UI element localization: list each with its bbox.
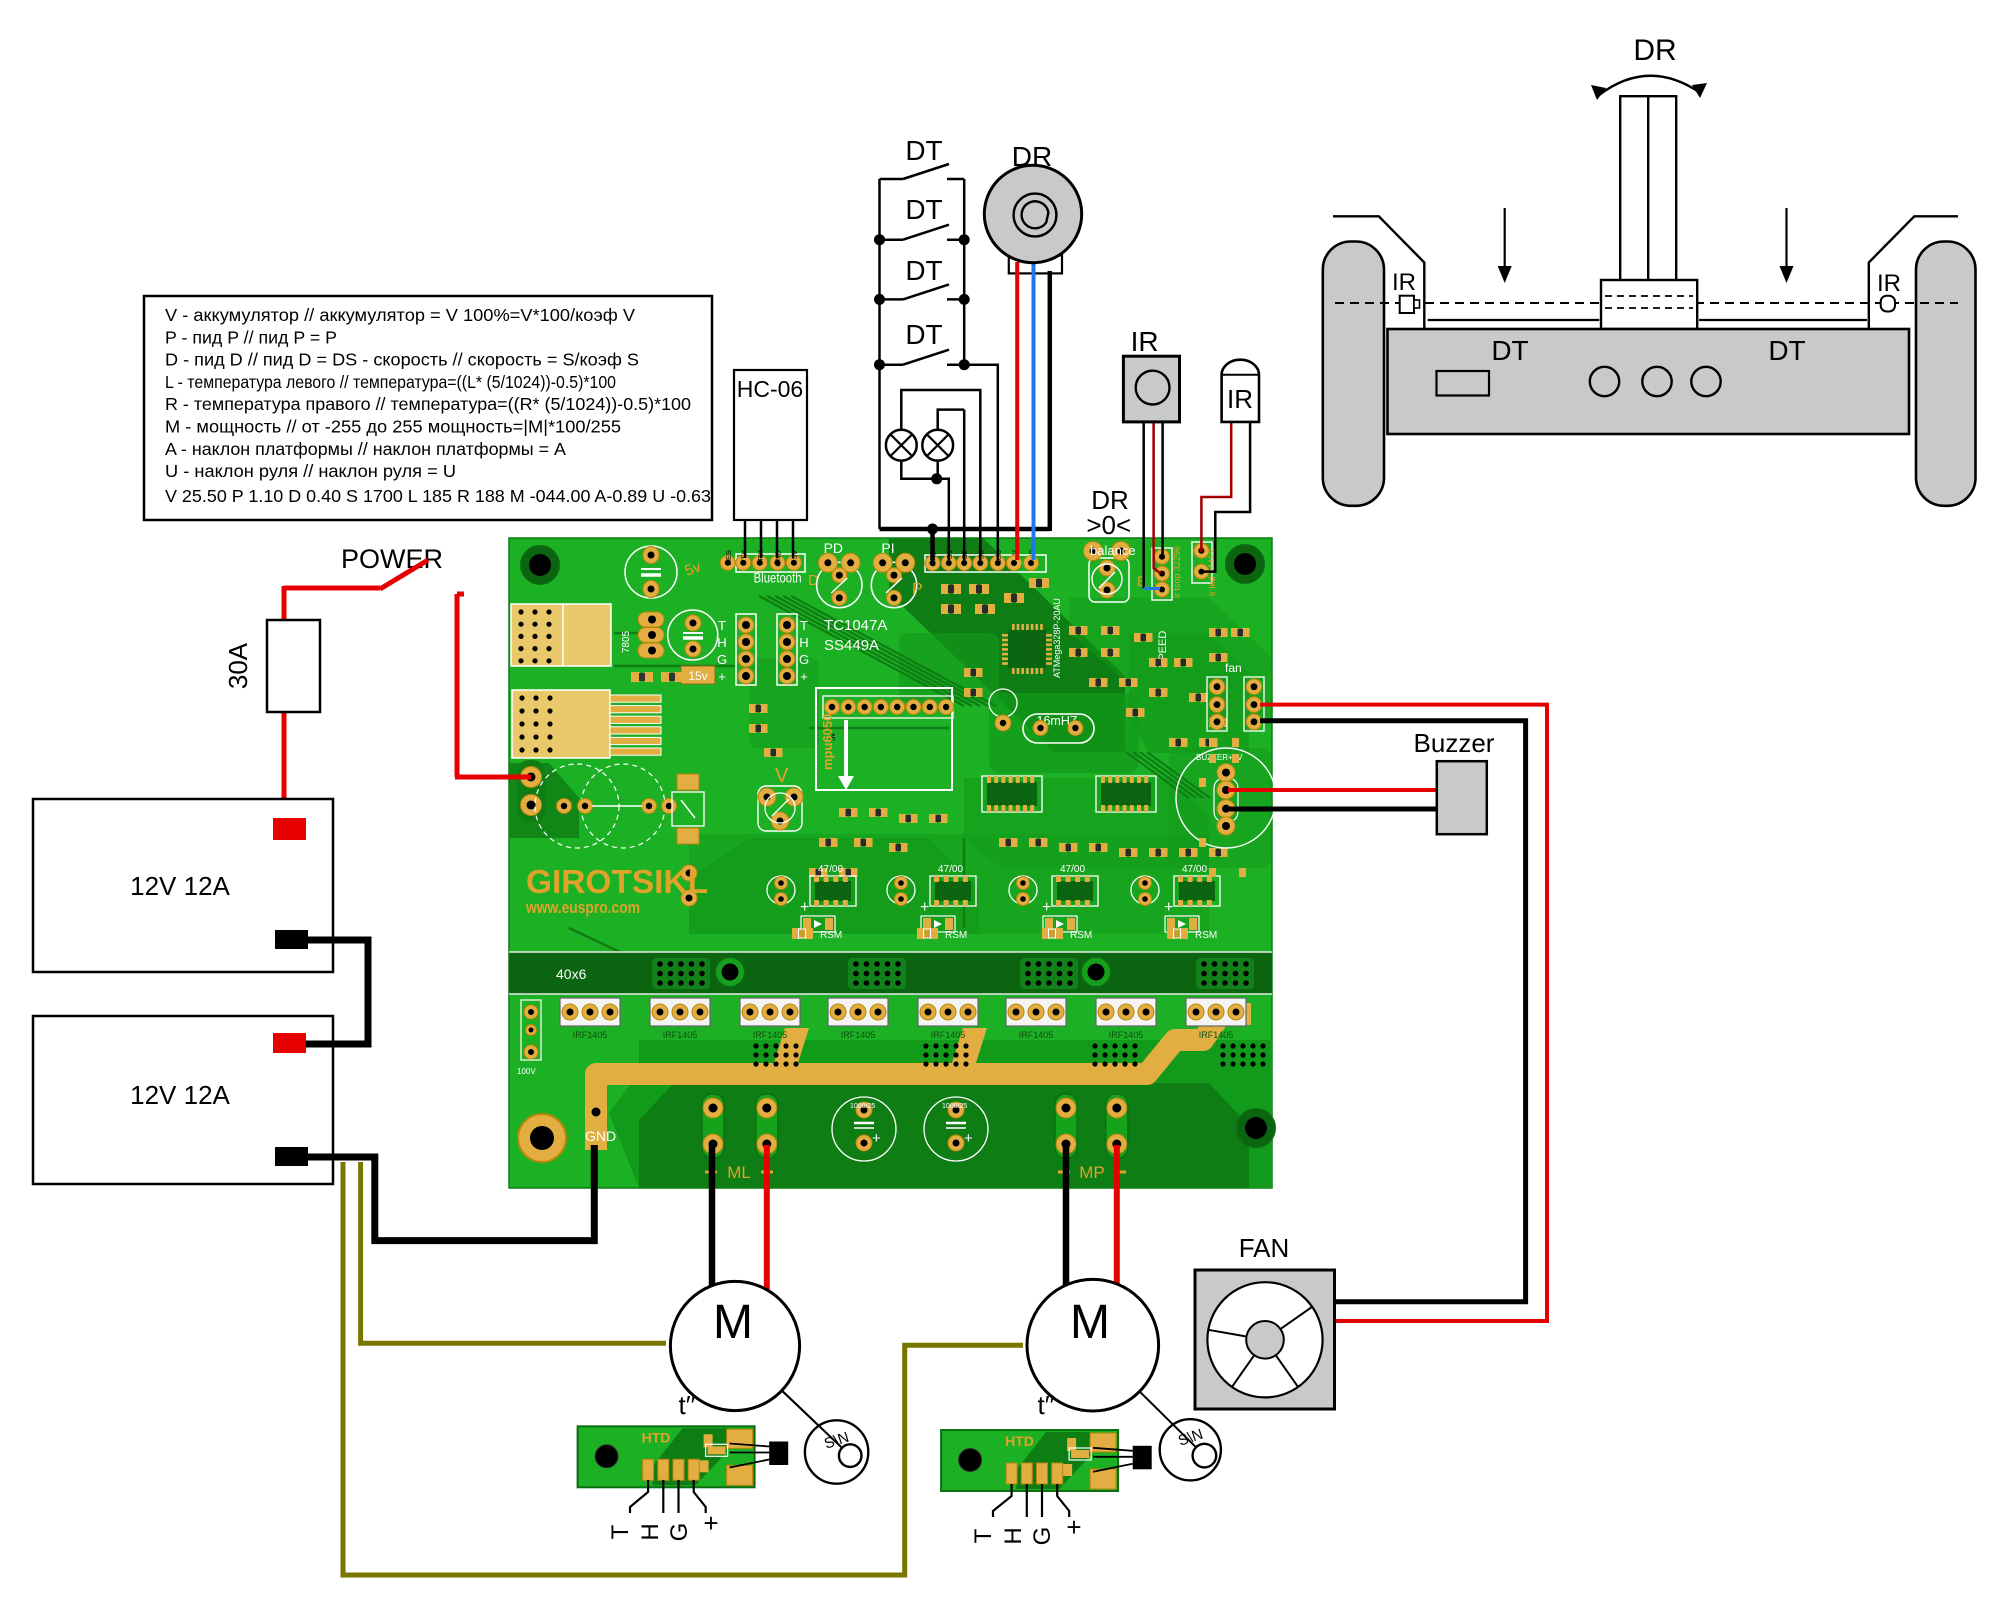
svg-text:HTD: HTD [642,1429,671,1445]
svg-text:M: M [713,1296,753,1349]
svg-text:IRF1405: IRF1405 [1019,1030,1054,1040]
svg-text:H: H [637,1523,664,1540]
svg-text:IR: IR [1392,269,1416,296]
svg-text:U - наклон руля // наклон рул: U - наклон руля // наклон руля = U [165,461,456,481]
svg-text:ATMega328P-20AU: ATMega328P-20AU [1052,598,1062,678]
svg-text:7805: 7805 [621,630,632,653]
svg-text:+: + [964,1130,973,1147]
svg-text:+: + [872,1130,881,1147]
svg-text:+: + [703,1508,718,1538]
svg-text:HC-06: HC-06 [737,376,803,402]
svg-text:t′′: t′′ [1038,1390,1055,1420]
svg-text:+: + [800,899,809,916]
svg-text:M - мощность // от -255 до 25: M - мощность // от -255 до 255 мощность=… [165,417,621,437]
svg-text:IR: IR [1227,384,1253,414]
svg-text:G: G [1029,1527,1056,1546]
svg-text:GIROTSIKL: GIROTSIKL [526,863,708,900]
svg-text:12V 12A: 12V 12A [130,871,230,901]
svg-text:47/00: 47/00 [1060,864,1085,875]
svg-text:t′′: t′′ [679,1390,696,1420]
svg-text:47/00: 47/00 [818,864,843,875]
svg-text:DT: DT [1768,335,1805,366]
svg-text:IRF1405: IRF1405 [573,1030,608,1040]
svg-text:47/00: 47/00 [938,864,963,875]
svg-text:IRF1405: IRF1405 [663,1030,698,1040]
svg-text:MP: MP [1079,1163,1105,1182]
svg-text:Buzzer: Buzzer [1414,728,1495,758]
svg-text:mpu6050: mpu6050 [820,714,835,770]
svg-text:IRF1405: IRF1405 [753,1030,788,1040]
svg-text:1000/25: 1000/25 [942,1103,967,1110]
svg-text:V 25.50 P 1.10 D 0.40 S 1700 L: V 25.50 P 1.10 D 0.40 S 1700 L 185 R 188… [165,486,711,506]
svg-text:HTD: HTD [1005,1433,1034,1449]
svg-text:P - пид P // пид P = P: P - пид P // пид P = P [165,327,337,347]
svg-text:DT: DT [905,319,942,350]
svg-text:ir tsop 32296: ir tsop 32296 [1172,546,1182,598]
svg-text:+: + [920,899,929,916]
svg-text:V - аккумулятор // аккумулятор: V - аккумулятор // аккумулятор = V 100%=… [165,305,635,325]
svg-text:RSM: RSM [1195,930,1217,941]
svg-text:DT: DT [905,135,942,166]
svg-text:A - наклон платформы // наклон: A - наклон платформы // наклон платформы… [165,439,566,459]
svg-text:G: G [717,652,727,667]
svg-text:PD: PD [824,540,843,556]
svg-text:IR: IR [1131,326,1159,357]
svg-text:V: V [775,765,789,787]
svg-text:L - температура левого // темп: L - температура левого // температура=((… [165,372,616,392]
svg-text:+: + [1042,899,1051,916]
svg-text:R - температура правого // тем: R - температура правого // температура=(… [165,394,691,414]
svg-text:RSM: RSM [820,930,842,941]
svg-text:DT: DT [905,194,942,225]
svg-text:T: T [718,618,726,633]
svg-text:DT: DT [1491,335,1528,366]
svg-text:T: T [970,1528,997,1543]
svg-text:FAN: FAN [1239,1233,1290,1263]
svg-text:TC1047A: TC1047A [824,617,887,634]
svg-text:G: G [799,652,809,667]
svg-text:47/00: 47/00 [1182,864,1207,875]
svg-text:5V: 5V [790,550,799,559]
svg-text:RES: RES [724,550,733,565]
svg-text:+: + [1164,899,1173,916]
svg-text:POWER: POWER [341,544,443,574]
svg-text:+: + [800,669,808,684]
svg-text:+: + [718,669,726,684]
svg-text:DR: DR [1012,141,1052,172]
svg-text:P: P [912,581,923,598]
svg-text:H: H [1000,1527,1027,1544]
svg-text:RSM: RSM [945,930,967,941]
svg-text:H: H [717,635,726,650]
svg-text:RSM: RSM [1070,930,1092,941]
svg-text:15v: 15v [688,669,707,683]
svg-text:IR: IR [1877,270,1901,297]
svg-text:Bluetooth: Bluetooth [754,570,802,586]
svg-text:IRF1405: IRF1405 [931,1030,966,1040]
svg-text:fan: fan [1225,661,1242,675]
svg-text:H: H [799,635,808,650]
svg-text:balance: balance [1090,543,1136,558]
svg-text:ML: ML [727,1163,751,1182]
svg-text:IRF1405: IRF1405 [1199,1030,1234,1040]
svg-text:+: + [1066,1512,1081,1542]
svg-text:100V: 100V [517,1067,536,1076]
svg-text:DR: DR [1633,34,1676,67]
svg-text:PI: PI [881,540,894,556]
svg-text:T: T [607,1524,634,1539]
svg-text:SS449A: SS449A [824,637,879,654]
svg-text:IRF1405: IRF1405 [1109,1030,1144,1040]
svg-text:www.euspro.com: www.euspro.com [525,898,640,917]
svg-text:1000/25: 1000/25 [850,1103,875,1110]
svg-text:T: T [800,618,808,633]
svg-text:D - пид D // пид D = DS - ско: D - пид D // пид D = DS - скорость // ск… [165,350,639,370]
svg-text:>0<: >0< [1086,510,1131,540]
svg-text:40x6: 40x6 [556,966,587,982]
svg-text:DT: DT [905,255,942,286]
svg-text:12V 12A: 12V 12A [130,1080,230,1110]
svg-text:GND: GND [585,1128,616,1144]
svg-text:IRF1405: IRF1405 [841,1030,876,1040]
svg-text:G: G [666,1523,693,1542]
svg-text:M: M [1070,1296,1110,1349]
svg-text:30A: 30A [223,642,253,689]
